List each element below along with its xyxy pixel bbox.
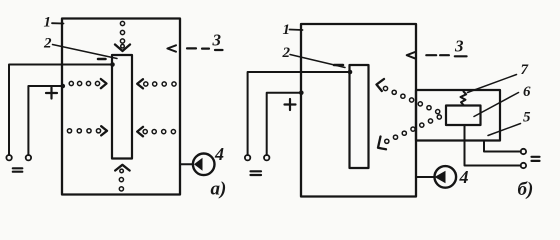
svg-text:4: 4 — [214, 144, 224, 164]
galvanometer 4 circle (fig b) — [435, 166, 457, 188]
detector window box 6 (fig b) — [446, 106, 481, 126]
plus sign (fig a) — [46, 88, 57, 99]
right upper chevron (fig a) — [137, 79, 143, 88]
leader line for label 1 (fig a) — [52, 22, 64, 24]
battery terminal left (fig b) — [245, 155, 250, 160]
leader line for label 1 (fig b) — [290, 29, 303, 32]
battery terminal right (fig a) — [26, 155, 31, 160]
left upper chevron (fig a) — [101, 79, 107, 88]
output terminal upper (fig b) — [521, 149, 526, 154]
left lower chevron (fig a) — [101, 126, 107, 135]
leader line for label 5 (fig b) — [488, 124, 521, 136]
DC source equals sign (fig a) — [13, 168, 22, 171]
svg-text:5: 5 — [523, 110, 531, 126]
radiation dashed arrow head (fig b) — [407, 52, 415, 58]
minus polarity tick at electrode (fig b) — [334, 64, 343, 67]
upper electron ray chevron (fig b) — [377, 79, 385, 91]
leader line for label 2 (fig b) — [290, 55, 345, 68]
central electrode plate (figure b) — [350, 65, 369, 168]
junction dot electrode/wire (fig a) — [110, 62, 115, 67]
plus sign (fig b) — [285, 99, 296, 110]
svg-text:а): а) — [211, 179, 227, 200]
leader line for label 6 (fig b) — [474, 93, 519, 117]
left ion row lower dots (fig a) — [67, 129, 100, 133]
left ion row upper dots (fig a) — [69, 81, 99, 85]
bottom ion flow dots (fig a) — [119, 169, 123, 191]
resistor 7 zigzag (fig b) — [461, 92, 467, 106]
svg-text:7: 7 — [521, 62, 529, 78]
wire chamber to galvanometer (fig a) — [180, 163, 193, 165]
ionization chamber B (figure b) — [301, 24, 416, 197]
svg-text:4: 4 — [459, 167, 469, 187]
lower electron ray dots (fig b) — [385, 115, 442, 143]
right ion row lower dots (fig a) — [143, 130, 175, 134]
lower electron ray chevron (fig b) — [378, 137, 386, 150]
DC source equals sign (fig b) — [251, 171, 262, 175]
wire box6 to output terminal lower (fig b) — [465, 125, 521, 166]
top arrow chevron (fig a) — [115, 45, 130, 52]
wire from chamber wall to plus terminal (fig a) — [28, 86, 62, 155]
output terminal lower (fig b) — [521, 163, 526, 168]
svg-text:3: 3 — [212, 31, 222, 50]
detector housing box 5 (fig b) — [416, 90, 500, 141]
junction dot wall/wire (fig b) — [299, 91, 304, 96]
minus polarity tick at electrode (fig a) — [98, 58, 106, 61]
battery terminal left (fig a) — [6, 155, 11, 160]
wire from chamber wall to plus terminal (fig b) — [267, 93, 302, 155]
svg-text:6: 6 — [523, 84, 531, 100]
leader line for label 7 (fig b) — [468, 75, 517, 93]
radiation dashed arrow shaft (fig b) — [426, 55, 466, 56]
wire box5 to output terminal upper (fig b) — [484, 141, 521, 152]
bottom ion flow chevron (fig a) — [115, 165, 129, 171]
galvanometer needle triangle (fig b) — [435, 171, 446, 184]
galvanometer 4 circle (fig a) — [193, 154, 215, 176]
radiation dashed arrow shaft (fig a) — [187, 48, 223, 50]
right lower chevron (fig a) — [137, 127, 143, 136]
svg-text:2: 2 — [282, 45, 291, 61]
galvanometer needle triangle (fig a) — [194, 158, 203, 171]
svg-text:2: 2 — [43, 36, 52, 52]
radiation dashed arrow head (fig a) — [167, 45, 176, 51]
top ion flow dotted arrow (fig a) — [120, 21, 124, 48]
svg-text:б): б) — [518, 179, 534, 200]
central electrode plate (figure a) — [112, 55, 132, 159]
battery terminal right (fig b) — [264, 155, 269, 160]
ionization chamber A (figure a) — [62, 19, 180, 195]
wire chamber to galvanometer (fig b) — [416, 176, 435, 178]
upper electron ray dots (fig b) — [383, 86, 439, 113]
svg-text:1: 1 — [44, 15, 52, 31]
leader line for label 2 (fig a) — [53, 45, 118, 59]
right ion row upper dots (fig a) — [144, 82, 176, 86]
junction dot wall/wire (fig a) — [61, 84, 66, 89]
junction dot electrode/wire (fig b) — [348, 70, 353, 75]
svg-text:3: 3 — [454, 37, 464, 56]
wire from electrode top to left terminal (fig a) — [9, 65, 112, 156]
wire from electrode top to left terminal (fig b) — [248, 72, 350, 155]
DC output equals sign (fig b) — [532, 157, 540, 161]
